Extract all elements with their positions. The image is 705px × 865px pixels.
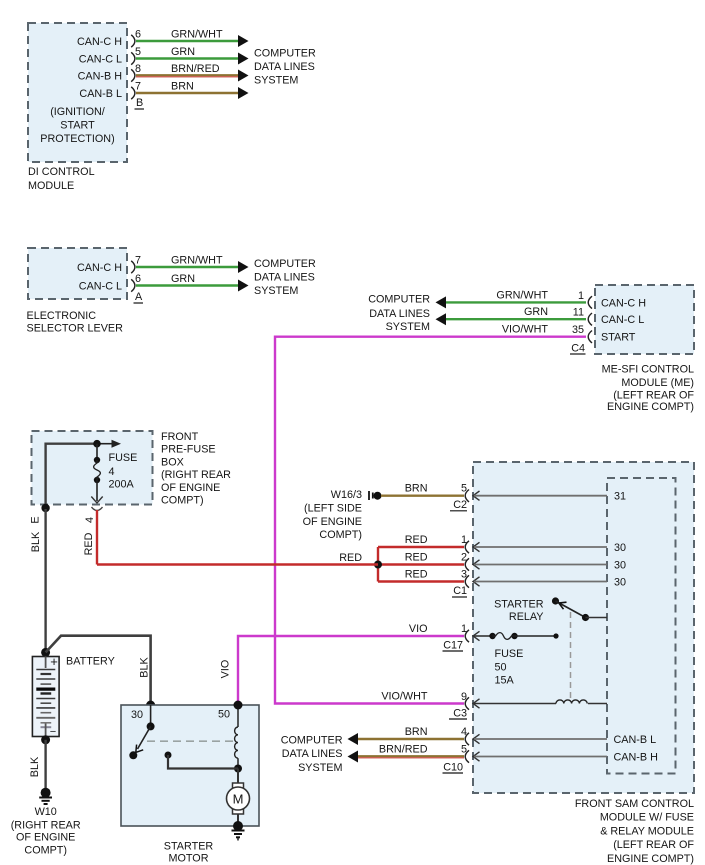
svg-text:SYSTEM: SYSTEM bbox=[386, 321, 430, 333]
svg-text:FUSE: FUSE bbox=[495, 648, 524, 660]
svg-text:C3: C3 bbox=[453, 708, 467, 720]
svg-text:30: 30 bbox=[131, 709, 143, 721]
svg-text:C2: C2 bbox=[453, 499, 467, 511]
svg-text:CAN-B H: CAN-B H bbox=[78, 71, 122, 83]
svg-text:ENGINE COMPT): ENGINE COMPT) bbox=[607, 401, 694, 413]
svg-text:30: 30 bbox=[614, 577, 626, 589]
svg-text:5: 5 bbox=[135, 46, 141, 58]
svg-text:5: 5 bbox=[461, 744, 467, 756]
svg-text:BRN/RED: BRN/RED bbox=[379, 744, 428, 756]
svg-text:(LEFT REAR OF: (LEFT REAR OF bbox=[613, 839, 694, 851]
svg-text:COMPUTER: COMPUTER bbox=[281, 735, 343, 747]
svg-text:VIO/WHT: VIO/WHT bbox=[381, 691, 428, 703]
svg-text:ENGINE COMPT): ENGINE COMPT) bbox=[607, 853, 694, 865]
svg-text:COMPT): COMPT) bbox=[161, 495, 204, 507]
svg-text:MODULE: MODULE bbox=[28, 180, 74, 192]
svg-text:W16/3: W16/3 bbox=[331, 489, 362, 501]
svg-text:GRN/WHT: GRN/WHT bbox=[171, 255, 223, 267]
svg-text:FRONT: FRONT bbox=[161, 431, 199, 443]
svg-text:CAN-C L: CAN-C L bbox=[79, 54, 122, 66]
svg-text:BLK: BLK bbox=[30, 531, 42, 552]
svg-text:CAN-C H: CAN-C H bbox=[601, 297, 646, 309]
svg-text:PRE-FUSE: PRE-FUSE bbox=[161, 444, 216, 456]
svg-text:BATTERY: BATTERY bbox=[66, 656, 115, 668]
svg-text:(RIGHT REAR: (RIGHT REAR bbox=[161, 469, 231, 481]
svg-text:BOX: BOX bbox=[161, 456, 184, 468]
svg-text:CAN-B L: CAN-B L bbox=[79, 88, 122, 100]
svg-text:4: 4 bbox=[109, 466, 115, 478]
svg-text:1: 1 bbox=[461, 534, 467, 546]
svg-text:DATA LINES: DATA LINES bbox=[369, 308, 430, 320]
svg-text:GRN: GRN bbox=[171, 46, 195, 58]
svg-text:7: 7 bbox=[135, 81, 141, 93]
svg-text:E: E bbox=[30, 516, 42, 523]
svg-text:30: 30 bbox=[614, 542, 626, 554]
svg-text:(RIGHT REAR: (RIGHT REAR bbox=[11, 820, 81, 832]
svg-text:7: 7 bbox=[135, 255, 141, 267]
svg-text:(LEFT REAR OF: (LEFT REAR OF bbox=[613, 390, 694, 402]
svg-text:W10: W10 bbox=[35, 806, 57, 818]
svg-text:GRN/WHT: GRN/WHT bbox=[171, 29, 223, 41]
svg-text:6: 6 bbox=[135, 29, 141, 41]
svg-text:+: + bbox=[50, 654, 58, 669]
svg-text:50: 50 bbox=[218, 709, 230, 721]
svg-text:SYSTEM: SYSTEM bbox=[298, 762, 342, 774]
svg-text:CAN-C L: CAN-C L bbox=[79, 281, 122, 293]
svg-text:RED: RED bbox=[405, 569, 428, 581]
svg-text:30: 30 bbox=[614, 560, 626, 572]
svg-text:1: 1 bbox=[578, 290, 584, 302]
svg-text:VIO/WHT: VIO/WHT bbox=[502, 324, 549, 336]
svg-text:& RELAY MODULE: & RELAY MODULE bbox=[600, 825, 694, 837]
svg-text:5: 5 bbox=[461, 483, 467, 495]
svg-text:SELECTOR LEVER: SELECTOR LEVER bbox=[27, 323, 124, 335]
svg-text:GRN/WHT: GRN/WHT bbox=[496, 289, 548, 301]
svg-text:CAN-C L: CAN-C L bbox=[601, 314, 644, 326]
svg-text:COMPT): COMPT) bbox=[319, 529, 362, 541]
svg-text:GRN: GRN bbox=[524, 306, 548, 318]
svg-text:4: 4 bbox=[84, 517, 96, 523]
svg-text:50: 50 bbox=[495, 661, 507, 673]
svg-text:C1: C1 bbox=[453, 585, 467, 597]
svg-text:DATA LINES: DATA LINES bbox=[254, 61, 315, 73]
svg-text:(IGNITION/: (IGNITION/ bbox=[50, 106, 105, 118]
svg-text:2: 2 bbox=[461, 552, 467, 564]
svg-text:FUSE: FUSE bbox=[109, 452, 138, 464]
svg-text:RED: RED bbox=[405, 534, 428, 546]
svg-text:COMPUTER: COMPUTER bbox=[254, 48, 316, 60]
svg-text:ME-SFI CONTROL: ME-SFI CONTROL bbox=[602, 364, 694, 376]
svg-text:STARTER: STARTER bbox=[164, 841, 214, 853]
svg-text:M: M bbox=[233, 792, 244, 807]
svg-text:9: 9 bbox=[461, 691, 467, 703]
svg-text:3: 3 bbox=[461, 569, 467, 581]
svg-text:VIO: VIO bbox=[409, 623, 428, 635]
svg-text:BRN: BRN bbox=[405, 483, 428, 495]
svg-text:BLK: BLK bbox=[139, 657, 151, 678]
svg-text:RED: RED bbox=[405, 552, 428, 564]
svg-text:START: START bbox=[601, 332, 636, 344]
svg-text:OF ENGINE: OF ENGINE bbox=[303, 516, 362, 528]
svg-text:MOTOR: MOTOR bbox=[169, 853, 209, 865]
svg-text:COMPUTER: COMPUTER bbox=[254, 258, 316, 270]
svg-text:STARTER: STARTER bbox=[494, 599, 544, 611]
svg-text:DI CONTROL: DI CONTROL bbox=[28, 166, 95, 178]
svg-text:COMPUTER: COMPUTER bbox=[368, 294, 430, 306]
svg-text:CAN-C H: CAN-C H bbox=[77, 262, 122, 274]
svg-text:(LEFT SIDE: (LEFT SIDE bbox=[304, 502, 362, 514]
svg-text:200A: 200A bbox=[109, 479, 135, 491]
svg-text:OF ENGINE: OF ENGINE bbox=[161, 482, 220, 494]
svg-text:31: 31 bbox=[614, 491, 626, 503]
svg-text:DATA LINES: DATA LINES bbox=[282, 748, 343, 760]
svg-text:DATA LINES: DATA LINES bbox=[254, 271, 315, 283]
svg-text:BRN: BRN bbox=[171, 81, 194, 93]
svg-text:RED: RED bbox=[83, 532, 95, 555]
svg-text:8: 8 bbox=[135, 63, 141, 75]
svg-text:6: 6 bbox=[135, 273, 141, 285]
svg-text:C10: C10 bbox=[443, 762, 463, 774]
svg-text:CAN-B H: CAN-B H bbox=[614, 752, 658, 764]
svg-text:RELAY: RELAY bbox=[509, 611, 544, 623]
svg-text:SYSTEM: SYSTEM bbox=[254, 285, 298, 297]
svg-text:15A: 15A bbox=[495, 675, 515, 687]
svg-text:COMPT): COMPT) bbox=[24, 844, 67, 856]
svg-text:OF ENGINE: OF ENGINE bbox=[16, 832, 75, 844]
svg-text:B: B bbox=[136, 97, 143, 109]
svg-text:MODULE (ME): MODULE (ME) bbox=[621, 377, 694, 389]
svg-text:BRN: BRN bbox=[405, 726, 428, 738]
svg-text:START: START bbox=[60, 120, 95, 132]
svg-text:A: A bbox=[135, 291, 143, 303]
svg-text:FRONT SAM CONTROL: FRONT SAM CONTROL bbox=[575, 798, 694, 810]
svg-text:GRN: GRN bbox=[171, 273, 195, 285]
svg-text:PROTECTION): PROTECTION) bbox=[40, 133, 114, 145]
svg-text:BRN/RED: BRN/RED bbox=[171, 63, 220, 75]
svg-text:C17: C17 bbox=[443, 640, 463, 652]
svg-text:SYSTEM: SYSTEM bbox=[254, 75, 298, 87]
svg-text:11: 11 bbox=[573, 307, 584, 319]
svg-text:ELECTRONIC: ELECTRONIC bbox=[27, 310, 97, 322]
svg-text:35: 35 bbox=[572, 324, 584, 336]
svg-text:CAN-C H: CAN-C H bbox=[77, 36, 122, 48]
svg-text:VIO: VIO bbox=[220, 660, 232, 679]
svg-text:4: 4 bbox=[461, 726, 467, 738]
svg-text:CAN-B L: CAN-B L bbox=[614, 734, 657, 746]
svg-text:1: 1 bbox=[461, 623, 467, 635]
svg-text:RED: RED bbox=[339, 552, 362, 564]
svg-text:C4: C4 bbox=[571, 343, 585, 355]
svg-text:MODULE W/ FUSE: MODULE W/ FUSE bbox=[600, 812, 694, 824]
svg-text:BLK: BLK bbox=[29, 756, 41, 777]
svg-text:−: − bbox=[50, 726, 56, 738]
